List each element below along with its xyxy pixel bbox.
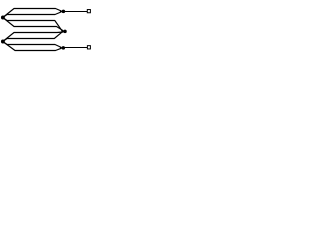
wire edge B4 (node c to node e, lane row 50)	[3, 42, 61, 51]
wire edge T3 (node a to node d, lane row 20)	[3, 18, 62, 32]
wire edge B1 (node c to node d, lane row 32)	[3, 32, 63, 42]
wire edge B3 (node c to node e, lane row 44)	[3, 42, 61, 48]
node g (square terminal S2)	[87, 46, 90, 49]
node b (point + fused arrowheads)	[62, 10, 66, 14]
wire edge T4 (node a to node d, lane row 26)	[3, 18, 63, 31]
wire tail edge b to square f (row 11)	[64, 11, 87, 13]
wire edge T2 (node a to node b, lane row 14)	[3, 12, 62, 18]
node f (square terminal S1)	[87, 10, 90, 13]
node e (point + fused arrowheads)	[62, 46, 66, 50]
wire edge T1 (node a to node b, lane row 8)	[3, 9, 62, 18]
node d (point + fused arrowheads)	[63, 30, 67, 34]
wire tail edge e to square g (row 47)	[64, 47, 87, 49]
wire edge B2 (node c to node d, lane row 38)	[3, 32, 62, 42]
node c (point)	[1, 40, 5, 44]
node a (point)	[1, 16, 5, 20]
